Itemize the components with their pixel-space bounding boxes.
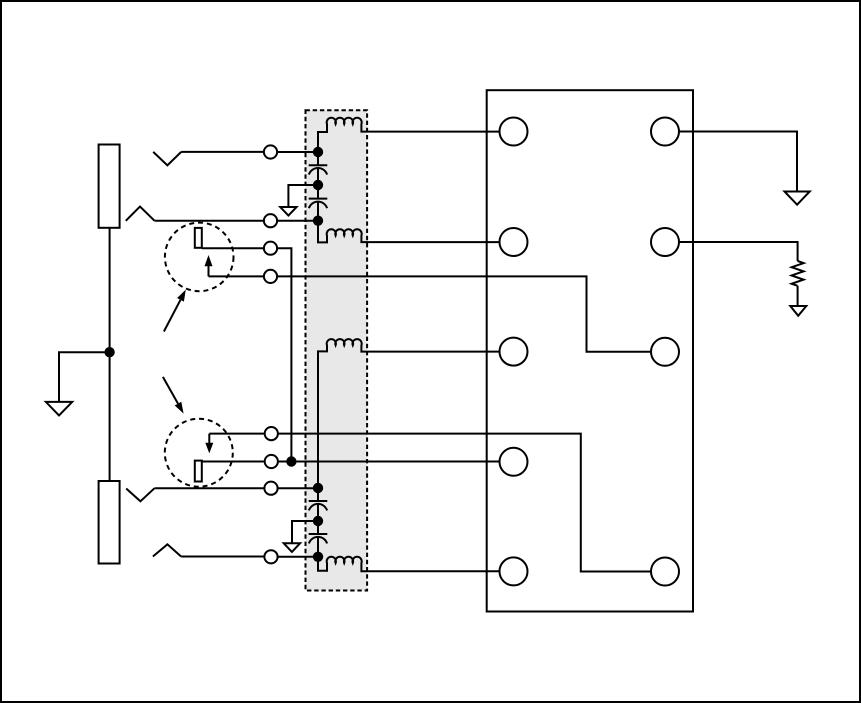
arrow A2 shaft (209, 434, 264, 445)
junction dot N4 (313, 483, 323, 493)
filter module box (dashed, shaded) (306, 110, 368, 590)
wire N1-C1 (317, 152, 319, 165)
pad P5L (500, 557, 528, 585)
capacitor C4 (309, 534, 328, 543)
wire C3-N5 (317, 504, 319, 534)
inductor L4 (318, 557, 500, 572)
switch S2 (126, 207, 155, 221)
arrow A1 head (205, 255, 213, 266)
wire S1 to T1 (181, 151, 264, 153)
terminal TB (265, 455, 278, 468)
wire C1-N2 (317, 168, 319, 199)
wire pin to TB (202, 461, 265, 463)
junction dot N3 (313, 216, 323, 226)
switch S1 (153, 152, 181, 166)
wire TB to P4L (278, 461, 500, 463)
wire T4 to P3R (277, 276, 651, 351)
pad P3L (500, 338, 528, 366)
wire ground tap left (59, 352, 110, 402)
wire N5 ground tap (292, 521, 318, 543)
callout pointer arrow A4 shaft (163, 377, 178, 404)
ground G5 (below resistor) (790, 306, 806, 316)
antenna element E2 (bottom) (99, 481, 120, 564)
pad P3R (651, 338, 679, 366)
terminal TD (264, 550, 277, 563)
inductor L2 (318, 221, 500, 243)
ground G2 (280, 207, 296, 216)
pad P2L (500, 228, 528, 256)
wire TD to node N6 (278, 556, 318, 558)
arrow A2 head (205, 443, 213, 454)
pad P4L (500, 448, 528, 476)
ground G1 (left) (46, 402, 72, 416)
junction dot J1 (286, 456, 296, 466)
pad P5R (651, 558, 679, 586)
detail callout circle D1 (165, 223, 234, 292)
capacitor C2 (309, 199, 328, 209)
junction dot N6 (313, 552, 323, 562)
contact pin detail D2 (195, 461, 202, 482)
wire P2R to resistor (679, 242, 798, 261)
wire R1 to ground (797, 286, 799, 306)
junction dot N2 (313, 180, 323, 190)
callout pointer arrow A3 shaft (164, 300, 181, 332)
wire S3 to T3b (154, 487, 264, 489)
inductor L1 (318, 118, 500, 152)
capacitor C3 (309, 501, 328, 510)
wire TA to P5R (278, 434, 651, 572)
terminal T2 (264, 214, 277, 227)
wire T2 to node N3 (277, 220, 318, 222)
relay/connector box (487, 90, 693, 611)
pad P2R (651, 228, 679, 256)
wire S4 to T4b (181, 556, 264, 558)
switch S3 (126, 488, 154, 501)
resistor R1 (792, 261, 804, 286)
wire P1R to ground (679, 132, 797, 192)
contact pin detail D1 (195, 228, 202, 248)
wire C2-N3 (317, 202, 319, 221)
detail callout circle D2 (165, 419, 233, 487)
wire TC to node N4 (278, 487, 318, 489)
terminal TC (264, 482, 277, 495)
junction dot N1 (313, 147, 323, 157)
wire N2 ground tap (288, 185, 318, 207)
wire N4-C3 (317, 488, 319, 501)
pad P1R (651, 118, 679, 146)
arrow A4 head (175, 402, 184, 414)
capacitor C1 (309, 165, 328, 174)
junction dot antenna (104, 347, 114, 357)
ground G4 (top right) (785, 192, 810, 205)
inductor L3 (318, 339, 500, 488)
switch S4 (153, 544, 181, 556)
antenna element E1 (top) (99, 145, 120, 228)
terminal T1 (264, 145, 277, 158)
wire C4-N6 (317, 537, 319, 557)
terminal T3 (264, 242, 277, 255)
wire S2 to T2 (155, 220, 264, 222)
terminal TA (265, 427, 278, 440)
wire T3 down to junction J1 (277, 248, 291, 461)
pad P1L (500, 118, 528, 146)
arrow A3 head (177, 290, 186, 302)
junction dot N5 (313, 516, 323, 526)
wire T1 to node N1 (277, 151, 318, 153)
terminal T4 (264, 270, 277, 283)
wire pin to T3 (202, 247, 264, 249)
arrow A1 shaft (209, 265, 265, 276)
wire E1-E2 feed line (109, 228, 111, 481)
ground G3 (284, 543, 300, 552)
